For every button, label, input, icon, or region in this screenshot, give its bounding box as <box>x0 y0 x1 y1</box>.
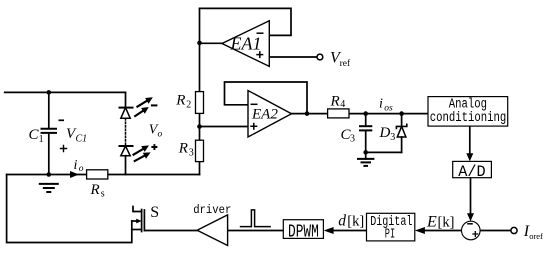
svg-text:o: o <box>158 130 163 140</box>
svg-text:4: 4 <box>340 99 345 110</box>
svg-text:Analog: Analog <box>449 97 487 112</box>
svg-text:driver: driver <box>193 203 231 217</box>
svg-text:DPWM: DPWM <box>288 221 319 242</box>
svg-text:ref: ref <box>340 58 351 69</box>
svg-text:os: os <box>384 103 393 113</box>
svg-text:d: d <box>338 212 346 229</box>
svg-text:3: 3 <box>390 132 395 143</box>
svg-text:oref: oref <box>529 231 543 241</box>
svg-text:conditioning: conditioning <box>430 111 507 126</box>
svg-text:i: i <box>379 96 383 111</box>
svg-text:R: R <box>175 93 185 109</box>
svg-text:o: o <box>79 164 84 174</box>
svg-text:PI: PI <box>385 226 395 242</box>
svg-text:3: 3 <box>189 148 194 159</box>
svg-text:R: R <box>330 93 340 109</box>
svg-text:[k]: [k] <box>438 214 455 230</box>
svg-text:C1: C1 <box>76 134 88 145</box>
svg-text:s: s <box>101 189 105 200</box>
svg-text:D: D <box>379 125 391 141</box>
svg-text:[k]: [k] <box>347 213 364 229</box>
svg-text:2: 2 <box>186 100 191 111</box>
svg-text:A/D: A/D <box>458 163 485 181</box>
svg-text:S: S <box>150 204 159 221</box>
svg-text:i: i <box>74 158 78 173</box>
svg-text:3: 3 <box>350 134 355 145</box>
svg-text:R: R <box>90 182 100 198</box>
svg-text:EA2: EA2 <box>251 107 278 123</box>
svg-text:R: R <box>178 141 188 157</box>
svg-text:1: 1 <box>39 134 44 145</box>
svg-text:E: E <box>426 213 437 230</box>
svg-text:EA1: EA1 <box>230 34 262 54</box>
